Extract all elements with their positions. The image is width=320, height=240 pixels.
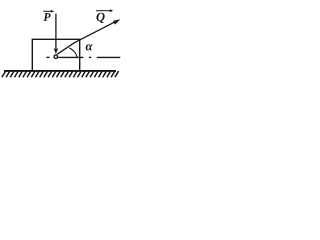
ground hatching <box>2 71 119 77</box>
angle arc <box>69 48 77 57</box>
force P line <box>55 14 57 50</box>
dash-dot axis <box>46 56 120 58</box>
label Q <box>96 13 104 23</box>
label alpha <box>86 44 93 50</box>
force Q arrowhead <box>113 19 121 24</box>
label P <box>43 13 50 21</box>
label Q vector arrow <box>96 10 111 12</box>
force P arrowhead <box>54 48 59 54</box>
force Q line <box>57 22 115 54</box>
point circle <box>54 55 58 59</box>
label P vector arrow <box>43 10 52 12</box>
ground <box>4 70 116 72</box>
block <box>32 39 79 70</box>
